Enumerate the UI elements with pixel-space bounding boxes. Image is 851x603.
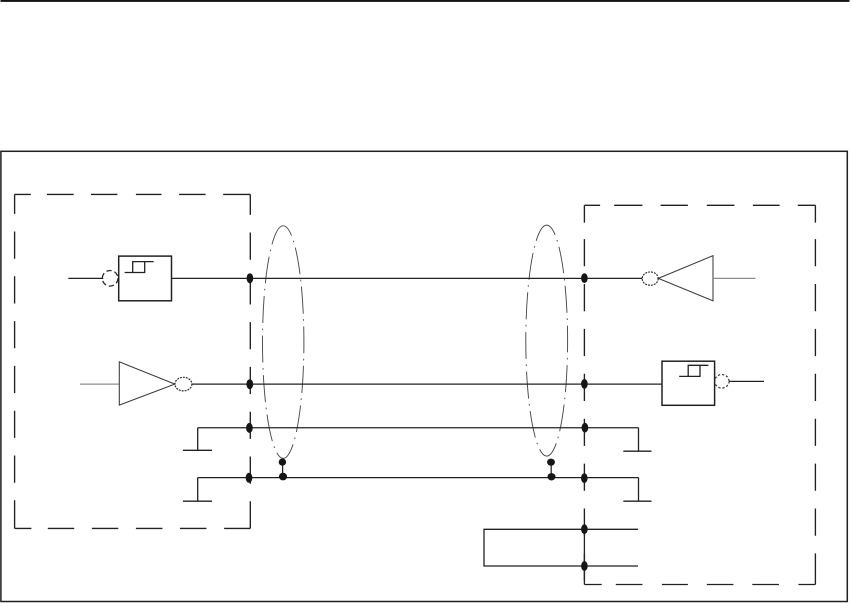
wire M ground line 3 bbox=[198, 427, 639, 429]
junction line3/right boundary bbox=[582, 423, 589, 433]
ground symbol left (line 3) bbox=[183, 428, 212, 451]
U4 output bubble (dashed) bbox=[715, 375, 729, 389]
junction line3/left boundary bbox=[246, 423, 253, 433]
inverter bubble of U2 bbox=[175, 377, 192, 391]
receiver U4 Schmitt-trigger box (right device) bbox=[662, 361, 715, 405]
wire from shield bar to chassis edge bbox=[583, 529, 585, 584]
ground symbol right (line 4) bbox=[623, 478, 651, 502]
driver U2 input stub (gray) bbox=[80, 383, 119, 385]
left device boundary (dashed) bbox=[15, 194, 251, 528]
wire RxD input stub (left) bbox=[68, 277, 103, 279]
wire M ground line 4 bbox=[198, 477, 639, 479]
U4 hysteresis glyph bbox=[679, 365, 708, 376]
junction shield-bar top/right boundary bbox=[581, 524, 588, 534]
junction line2/right boundary bbox=[581, 379, 588, 389]
junction line2/left boundary bbox=[246, 379, 253, 389]
junction shield/right ellipse bbox=[547, 459, 555, 466]
driver U2 inverter triangle (left device) bbox=[119, 362, 175, 405]
shield tap wire left bbox=[282, 462, 284, 478]
wire RxD line 1 bbox=[172, 277, 643, 279]
inverter bubble of U3 bbox=[642, 272, 658, 285]
U3 output stub (gray) bbox=[713, 277, 756, 279]
wire TxD line 2 bbox=[192, 383, 662, 385]
shield bar loop wires (right device bottom) bbox=[484, 529, 638, 566]
receiver U3 inverter triangle (right device) bbox=[658, 256, 713, 301]
U4 output stub bbox=[729, 380, 764, 382]
junction shield tap/line4 left bbox=[279, 473, 287, 481]
cable shield ellipse right bbox=[526, 225, 568, 456]
U1 hysteresis glyph bbox=[125, 262, 154, 273]
current-loop bubble (dashed) at receiver input bbox=[102, 271, 118, 287]
ground symbol left (line 4) bbox=[183, 478, 212, 502]
right device boundary (dashed) bbox=[584, 205, 815, 584]
junction line1/right boundary bbox=[581, 273, 588, 283]
junction shield tap/line4 right bbox=[548, 473, 556, 480]
junction shield-bar bottom/right boundary bbox=[581, 561, 588, 571]
junction shield/left ellipse bbox=[279, 459, 286, 466]
receiver U1 Schmitt-trigger box (left device) bbox=[119, 256, 172, 301]
junction line4/left boundary bbox=[246, 473, 253, 483]
cable shield ellipse left bbox=[262, 226, 303, 459]
junction line4/right boundary bbox=[581, 473, 588, 483]
ground symbol right (line 3) bbox=[623, 428, 651, 452]
junction line1/left boundary bbox=[247, 273, 254, 283]
shield tap wire right bbox=[550, 462, 552, 478]
